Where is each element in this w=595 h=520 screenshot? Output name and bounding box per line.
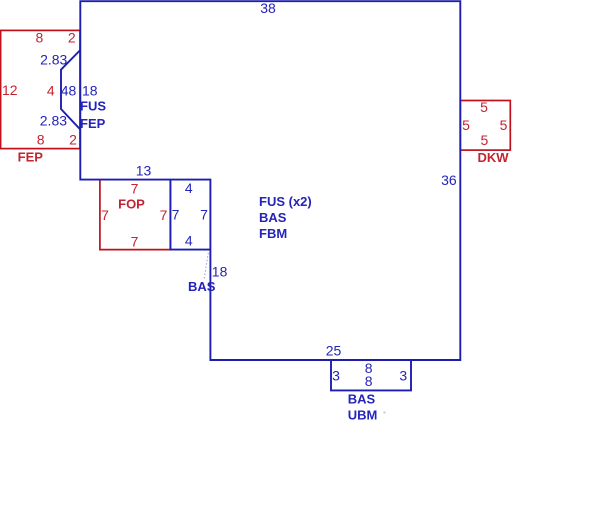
svg-text:7: 7 [200,207,208,223]
svg-text:FUS: FUS [80,98,106,113]
svg-text:8: 8 [365,373,373,389]
svg-text:3: 3 [399,368,407,384]
svg-text:4: 4 [185,180,193,196]
DKW deck outline (red, right) [460,101,510,151]
svg-text:25: 25 [326,343,342,359]
stray artifact mark [384,412,386,414]
FEP porch outline (red, left) [1,30,80,148]
main floor outline (blue) [80,1,460,360]
svg-text:5: 5 [481,132,489,148]
svg-text:BAS: BAS [259,210,287,225]
svg-text:7: 7 [131,181,139,197]
svg-text:36: 36 [441,172,457,188]
svg-text:4: 4 [47,83,55,99]
svg-text:12: 12 [2,82,18,98]
svg-text:48: 48 [61,83,77,99]
svg-text:BAS: BAS [188,279,216,294]
svg-text:UBM: UBM [348,408,378,423]
svg-text:18: 18 [82,83,98,99]
svg-text:2.83: 2.83 [40,52,67,68]
svg-text:3: 3 [332,368,340,384]
FOP porch outline (red, below step) [100,180,170,249]
svg-text:BAS: BAS [348,392,376,407]
svg-text:8: 8 [36,29,44,45]
svg-text:FEP: FEP [18,150,44,165]
svg-text:5: 5 [500,117,508,133]
BAS/UBM stoop outline (blue, bottom) [331,360,411,390]
svg-text:7: 7 [160,207,168,223]
bay bump-out on left wall (blue) [61,50,80,130]
svg-text:DKW: DKW [477,150,509,165]
svg-text:8: 8 [37,131,45,147]
svg-text:7: 7 [101,207,109,223]
svg-text:FOP: FOP [118,197,145,212]
dotted leader line to BAS label [204,253,208,280]
svg-text:38: 38 [260,0,276,16]
svg-text:5: 5 [480,99,488,115]
svg-text:FUS (x2): FUS (x2) [259,194,312,209]
svg-text:7: 7 [131,234,139,250]
svg-text:5: 5 [462,117,470,133]
svg-text:2.83: 2.83 [40,112,67,128]
svg-text:13: 13 [136,162,152,178]
svg-text:2: 2 [69,131,77,147]
svg-text:FBM: FBM [259,226,287,241]
svg-text:FEP: FEP [80,116,106,131]
interior partition of 4x7 section (blue) [170,180,210,250]
svg-text:7: 7 [172,207,180,223]
svg-text:18: 18 [212,264,228,280]
svg-text:2: 2 [68,29,76,45]
svg-text:4: 4 [185,233,193,249]
